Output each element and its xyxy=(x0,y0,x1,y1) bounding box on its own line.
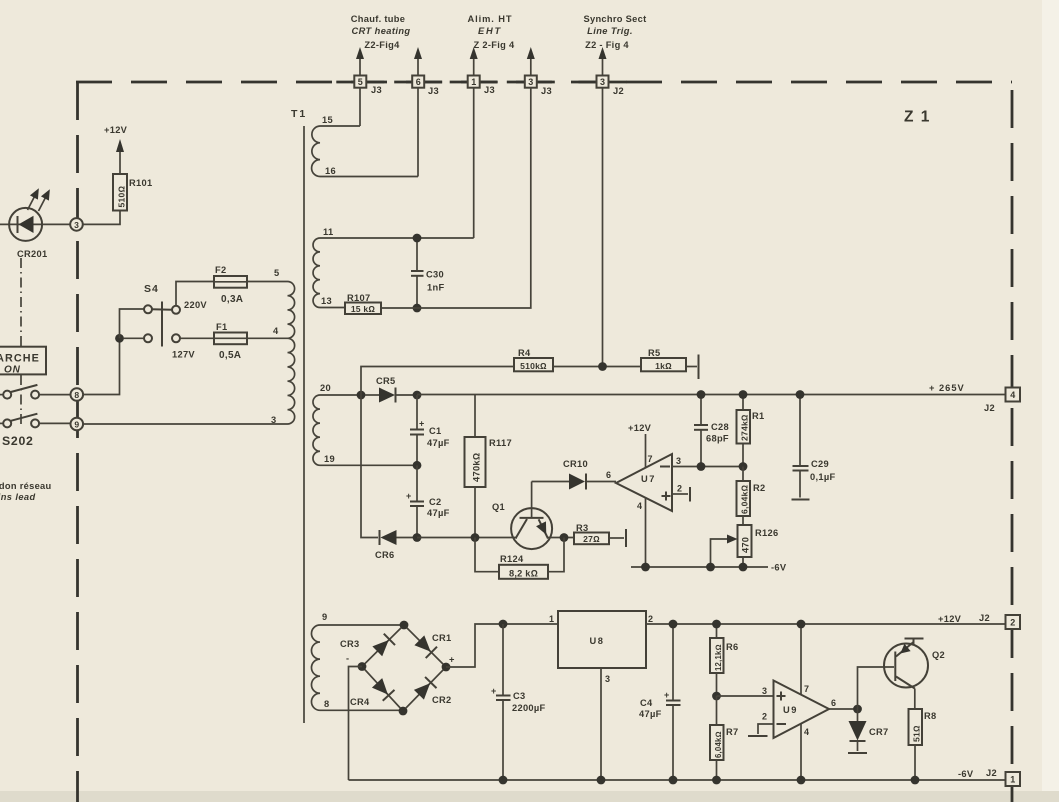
heading Alim. HT / EHT / Z2-Fig4 xyxy=(468,14,515,50)
svg-text:R3: R3 xyxy=(576,523,588,533)
T1 primary winding 5-4-3 xyxy=(271,268,295,425)
svg-text:R2: R2 xyxy=(753,483,765,493)
junction dot C28 bottom xyxy=(697,462,706,471)
svg-text:+12V: +12V xyxy=(628,423,652,433)
svg-text:CR10: CR10 xyxy=(563,459,588,469)
svg-text:8: 8 xyxy=(74,390,79,400)
connector J3 pin 1 arrow xyxy=(470,47,478,76)
diode CR7 xyxy=(848,709,889,753)
svg-text:Line Trig.: Line Trig. xyxy=(587,26,633,36)
bridge diode CR4 xyxy=(350,677,394,707)
U9 pin4 wire xyxy=(801,724,809,781)
junction dot C3 top xyxy=(499,620,508,629)
U9 pin2 ground xyxy=(748,724,774,736)
svg-text:2200µF: 2200µF xyxy=(512,703,546,713)
svg-text:16: 16 xyxy=(325,166,336,176)
svg-text:R126: R126 xyxy=(755,528,778,538)
svg-text:R117: R117 xyxy=(489,438,512,448)
connector J3 pin 3 arrow xyxy=(527,47,535,76)
svg-text:+: + xyxy=(406,491,411,501)
resistor R1 xyxy=(737,395,765,467)
svg-text:1: 1 xyxy=(471,77,476,87)
svg-text:U8: U8 xyxy=(590,636,605,646)
svg-text:470kΩ: 470kΩ xyxy=(472,453,482,482)
svg-text:6,04kΩ: 6,04kΩ xyxy=(714,731,723,758)
transistor Q2 xyxy=(884,639,945,710)
svg-text:2: 2 xyxy=(677,484,682,494)
svg-text:2: 2 xyxy=(1010,618,1015,628)
svg-text:3: 3 xyxy=(605,674,610,684)
svg-text:R101: R101 xyxy=(129,178,152,188)
U7 pin7 +12V xyxy=(628,423,653,468)
resistor R7 xyxy=(710,696,738,780)
wire bridge plus to U8 xyxy=(446,624,558,667)
svg-text:+12V: +12V xyxy=(938,614,962,624)
svg-text:U9: U9 xyxy=(783,705,798,715)
svg-text:R1: R1 xyxy=(752,411,764,421)
connector J2 pin 3 arrow xyxy=(599,47,607,76)
svg-text:4: 4 xyxy=(1010,390,1015,400)
svg-text:Z2-Fig4: Z2-Fig4 xyxy=(364,40,400,50)
svg-text:J2: J2 xyxy=(613,86,624,96)
S4 mechanical bar xyxy=(161,302,163,347)
svg-text:4: 4 xyxy=(804,727,809,737)
junction dot R6/R7 xyxy=(712,692,721,701)
svg-text:J2: J2 xyxy=(984,403,995,413)
diode CR10 xyxy=(532,459,616,490)
bridge rectifier frame xyxy=(362,625,446,711)
svg-text:19: 19 xyxy=(324,454,335,464)
svg-text:F1: F1 xyxy=(216,322,227,332)
svg-text:6,04kΩ: 6,04kΩ xyxy=(740,484,750,514)
junction dot R1/R2 xyxy=(739,462,748,471)
wire R107 line to J3-3 xyxy=(381,88,531,308)
junction dot C4 top xyxy=(669,620,678,629)
svg-text:R6: R6 xyxy=(726,642,738,652)
svg-text:J2: J2 xyxy=(979,613,990,623)
connector J3 pin 3 box xyxy=(525,76,552,97)
wire R4 to R5 xyxy=(553,366,641,368)
svg-text:4: 4 xyxy=(273,326,279,336)
svg-text:R124: R124 xyxy=(500,554,524,564)
svg-text:6: 6 xyxy=(606,470,611,480)
svg-text:8,2 kΩ: 8,2 kΩ xyxy=(509,568,538,578)
junction dot C29 top xyxy=(796,390,805,399)
svg-text:3: 3 xyxy=(528,77,533,87)
capacitor C3 xyxy=(491,624,546,780)
svg-text:+ 265V: + 265V xyxy=(929,383,965,393)
svg-text:CR6: CR6 xyxy=(375,550,395,560)
svg-text:27Ω: 27Ω xyxy=(583,534,600,544)
+12V arrow above R101 xyxy=(104,125,128,174)
svg-text:2: 2 xyxy=(648,614,653,624)
svg-text:2: 2 xyxy=(762,712,767,722)
resistor R5 xyxy=(641,348,686,371)
junction dot CR5 cathode / C1 top xyxy=(413,391,422,400)
svg-text:51Ω: 51Ω xyxy=(912,725,922,742)
svg-text:CR7: CR7 xyxy=(869,727,889,737)
fuse F2 0,3A xyxy=(176,265,247,306)
regulator U8 xyxy=(549,611,653,780)
resistor R8 xyxy=(909,709,937,780)
svg-text:EHT: EHT xyxy=(478,26,502,36)
capacitor C2 xyxy=(406,465,450,537)
wire S202-2 to node 9 xyxy=(39,422,70,424)
svg-text:220V: 220V xyxy=(184,300,207,310)
svg-text:CR201: CR201 xyxy=(17,249,47,259)
svg-text:6: 6 xyxy=(416,77,421,87)
svg-text:Z 1: Z 1 xyxy=(904,109,931,126)
junction dot R1 top xyxy=(739,390,748,399)
scan edge shading xyxy=(1042,0,1059,802)
svg-text:470: 470 xyxy=(741,537,751,553)
svg-text:Cordon réseau: Cordon réseau xyxy=(0,481,52,491)
wire S202-1 to node 8 xyxy=(39,394,70,396)
junction dot R117 bottom xyxy=(471,533,480,542)
svg-text:5: 5 xyxy=(358,77,363,87)
svg-text:Synchro Sect: Synchro Sect xyxy=(583,14,646,24)
svg-text:S4: S4 xyxy=(144,283,159,295)
Z1 board dashed border top side xyxy=(76,81,1012,84)
svg-text:Q2: Q2 xyxy=(932,650,945,660)
switch S202 pole 1 xyxy=(0,385,39,399)
svg-text:15 kΩ: 15 kΩ xyxy=(351,304,376,314)
node 8 on border xyxy=(71,388,84,401)
junction dot C30 bottom xyxy=(413,304,422,313)
svg-text:C3: C3 xyxy=(513,691,525,701)
svg-text:Z2 - Fig 4: Z2 - Fig 4 xyxy=(585,40,629,50)
+265V rail xyxy=(417,394,1006,396)
Z1 board dashed border left side xyxy=(76,82,79,802)
svg-text:47µF: 47µF xyxy=(639,709,662,719)
T1 secondary winding 15-16 xyxy=(312,115,418,177)
node 3 on border xyxy=(70,218,83,231)
svg-text:CR4: CR4 xyxy=(350,697,370,707)
svg-text:3: 3 xyxy=(762,686,767,696)
connector J2 pin 2 box xyxy=(1006,615,1021,629)
junction dot C2 bottom xyxy=(413,533,422,542)
-6V rail (mid) xyxy=(631,566,768,568)
bridge diode CR2 xyxy=(413,677,451,705)
op-amp U9 xyxy=(762,681,829,739)
svg-text:-6V: -6V xyxy=(958,769,974,779)
junction dot R126 wiper xyxy=(706,563,715,572)
svg-text:11: 11 xyxy=(323,227,333,237)
svg-text:510kΩ: 510kΩ xyxy=(520,361,547,371)
svg-text:Z 2-Fig 4: Z 2-Fig 4 xyxy=(474,40,515,50)
wire branch up to R4 line xyxy=(361,367,514,396)
svg-text:J3: J3 xyxy=(371,85,382,95)
svg-text:274kΩ: 274kΩ xyxy=(740,414,750,441)
junction dot U7 pin4 xyxy=(641,563,650,572)
svg-text:MARCHE: MARCHE xyxy=(0,353,40,365)
svg-text:C1: C1 xyxy=(429,426,441,436)
junction dot C1/C2/19 xyxy=(413,461,422,470)
svg-text:CR5: CR5 xyxy=(376,376,396,386)
svg-text:U7: U7 xyxy=(641,474,656,484)
svg-text:J3: J3 xyxy=(428,86,439,96)
svg-text:0,5A: 0,5A xyxy=(219,350,241,361)
bottom rail junction dots xyxy=(499,776,508,785)
connector J3 pin 6 arrow xyxy=(414,47,422,76)
svg-text:4: 4 xyxy=(637,501,642,511)
wire node3 to R101 xyxy=(83,211,120,225)
resistor R6 xyxy=(710,624,738,696)
wire bridge minus down to ground rail xyxy=(349,667,363,781)
ground rail (bottom) xyxy=(349,779,1006,781)
svg-text:R8: R8 xyxy=(924,711,936,721)
junction dot J2-3 line on R4 wire xyxy=(598,362,607,371)
wire F1 to primary tap 4 xyxy=(247,337,288,339)
svg-text:+: + xyxy=(449,655,455,665)
svg-text:3: 3 xyxy=(676,456,681,466)
svg-text:+: + xyxy=(491,686,496,696)
wire winding11 to J3-1 xyxy=(473,88,475,238)
svg-text:J3: J3 xyxy=(484,85,495,95)
svg-text:+12V: +12V xyxy=(104,125,128,135)
svg-text:C29: C29 xyxy=(811,459,829,469)
svg-text:Q1: Q1 xyxy=(492,502,505,512)
connector J3 pin 6 box xyxy=(412,76,439,97)
svg-text:127V: 127V xyxy=(172,350,195,360)
svg-text:1: 1 xyxy=(1010,775,1015,785)
bridge node dots xyxy=(400,621,409,630)
resistor R107 xyxy=(345,293,381,314)
capacitor C29 xyxy=(792,395,836,500)
svg-text:0,3A: 0,3A xyxy=(221,294,243,305)
connector J2 pin 1 box xyxy=(1006,772,1021,786)
capacitor C28 xyxy=(694,395,729,467)
junction dot R124/R3 xyxy=(560,533,569,542)
transformer T1 core xyxy=(303,126,305,723)
bridge diode CR3 xyxy=(340,634,395,657)
junction dot C30 top xyxy=(413,234,422,243)
op-amp U7 xyxy=(606,454,672,511)
svg-text:47µF: 47µF xyxy=(427,438,450,448)
svg-text:C28: C28 xyxy=(711,422,729,432)
svg-text:Chauf. tube: Chauf. tube xyxy=(351,14,405,24)
svg-text:7: 7 xyxy=(804,684,809,694)
svg-text:C30: C30 xyxy=(426,270,444,280)
svg-text:3: 3 xyxy=(271,415,276,425)
svg-text:0,1µF: 0,1µF xyxy=(810,472,835,482)
wire J2-3 down to R4 line xyxy=(602,88,604,367)
svg-text:47µF: 47µF xyxy=(427,508,450,518)
svg-text:1: 1 xyxy=(549,614,554,624)
svg-text:+: + xyxy=(664,690,669,700)
connector J3 pin 5 arrow xyxy=(356,47,364,76)
U7 pin3 wire xyxy=(672,456,743,467)
svg-text:C4: C4 xyxy=(640,698,653,708)
svg-text:9: 9 xyxy=(322,612,327,622)
capacitor C30 xyxy=(411,238,444,308)
U7 pin2 terminator xyxy=(672,484,690,502)
svg-text:20: 20 xyxy=(320,383,331,393)
potentiometer R126 xyxy=(711,525,779,567)
capacitor C1 xyxy=(410,395,450,465)
mechanical dash-dot link CR201 to switches xyxy=(20,258,22,346)
svg-text:12,1kΩ: 12,1kΩ xyxy=(714,644,723,671)
svg-text:J3: J3 xyxy=(541,86,552,96)
resistor R117 xyxy=(465,395,512,538)
svg-text:Mains lead: Mains lead xyxy=(0,492,36,502)
svg-text:ON: ON xyxy=(4,365,21,376)
svg-text:R107: R107 xyxy=(347,293,370,303)
svg-text:R5: R5 xyxy=(648,348,660,358)
wire node9 to T1 primary tap 3 xyxy=(83,423,287,425)
svg-text:68pF: 68pF xyxy=(706,434,729,444)
diode CR5 xyxy=(365,376,413,403)
junction dot C28 top xyxy=(697,390,706,399)
svg-text:8: 8 xyxy=(324,699,329,709)
resistor R2 xyxy=(737,467,766,526)
resistor R101 xyxy=(113,174,152,211)
U9 output wire xyxy=(829,698,858,709)
switch S202 pole 2 xyxy=(0,414,39,448)
bridge diode CR1 xyxy=(414,633,452,658)
switch S4 pole 220V xyxy=(120,283,208,338)
svg-text:R7: R7 xyxy=(726,727,738,737)
wire winding16 to J3-6 xyxy=(417,88,419,177)
svg-text:CR1: CR1 xyxy=(432,633,452,643)
svg-text:-6V: -6V xyxy=(771,563,787,573)
svg-text:9: 9 xyxy=(74,420,79,430)
resistor R124 xyxy=(475,538,564,579)
svg-text:S202: S202 xyxy=(2,434,34,448)
svg-text:CRT heating: CRT heating xyxy=(352,26,411,36)
svg-text:-: - xyxy=(346,654,349,664)
svg-text:+: + xyxy=(419,419,424,429)
wire R6/R7 to U9 pin3 xyxy=(717,695,774,697)
junction dot S4 common xyxy=(115,334,124,343)
svg-text:Alim. HT: Alim. HT xyxy=(468,14,513,24)
svg-text:F2: F2 xyxy=(215,265,226,275)
top border solid stubs at connector boxes xyxy=(336,81,384,84)
svg-text:1kΩ: 1kΩ xyxy=(655,361,672,371)
svg-text:6: 6 xyxy=(831,698,836,708)
node 9 on border xyxy=(71,418,84,431)
svg-text:T1: T1 xyxy=(291,108,307,120)
svg-text:CR3: CR3 xyxy=(340,639,360,649)
svg-text:7: 7 xyxy=(648,454,653,464)
connector J2 pin 4 box xyxy=(984,388,1020,414)
wire CR6 line to Q1 xyxy=(417,537,517,539)
wire Q1 emitter to R3 xyxy=(547,537,574,539)
svg-text:J2: J2 xyxy=(986,768,997,778)
diode CR6 xyxy=(361,395,413,560)
connector J2 pin 3 box xyxy=(597,76,624,97)
svg-text:3: 3 xyxy=(600,77,605,87)
svg-text:CR2: CR2 xyxy=(432,695,452,705)
svg-text:3: 3 xyxy=(74,220,79,230)
junction dot R6 top xyxy=(712,620,721,629)
svg-text:5: 5 xyxy=(274,268,279,278)
junction dot winding20 / R4 branch xyxy=(357,391,366,400)
U7 pin4 wire to -6V xyxy=(637,497,646,567)
T1 secondary winding 11-13 xyxy=(313,227,474,308)
+12V rail xyxy=(646,623,1006,625)
resistor R3 xyxy=(574,523,609,544)
wire U9 out up to Q2 base xyxy=(858,667,895,709)
T1 secondary winding 9-8 xyxy=(311,612,404,710)
svg-text:15: 15 xyxy=(322,115,333,125)
junction dot R126 bottom xyxy=(739,563,748,572)
T1 secondary winding 20-19 xyxy=(313,383,417,465)
wire node8 to S4 common xyxy=(83,338,119,394)
svg-text:R4: R4 xyxy=(518,348,531,358)
wire F2 to primary top xyxy=(247,281,288,283)
svg-text:13: 13 xyxy=(321,296,332,306)
svg-text:1nF: 1nF xyxy=(427,283,444,293)
LED CR201 xyxy=(0,186,71,259)
Z1 board dashed border right side xyxy=(1011,82,1014,802)
junction dot U9 pin7 xyxy=(797,620,806,629)
Cordon reseau / Mains lead text xyxy=(0,481,52,502)
R3 terminator xyxy=(609,529,626,547)
junction dot U9 output xyxy=(853,705,862,714)
capacitor C4 xyxy=(639,624,681,780)
heading Chauf. tube / CRT heating / Z2-Fig4 xyxy=(351,14,411,50)
MARCHE / ON box xyxy=(0,347,46,376)
svg-text:510Ω: 510Ω xyxy=(117,186,127,208)
switch S4 pole 127V xyxy=(124,334,196,359)
wire winding15 to J3-5 xyxy=(359,88,361,126)
fuse F1 0,5A xyxy=(180,322,247,361)
svg-text:C2: C2 xyxy=(429,497,441,507)
transistor Q1 xyxy=(492,482,552,550)
resistor R4 xyxy=(514,348,553,371)
R5 output terminator xyxy=(686,355,699,380)
connector J3 pin 5 box xyxy=(354,76,382,96)
U9 pin7 wire xyxy=(801,624,809,695)
connector J3 pin 1 box xyxy=(468,76,495,96)
heading Synchro Sect / Line Trig. / Z2-Fig 4 xyxy=(583,14,646,50)
